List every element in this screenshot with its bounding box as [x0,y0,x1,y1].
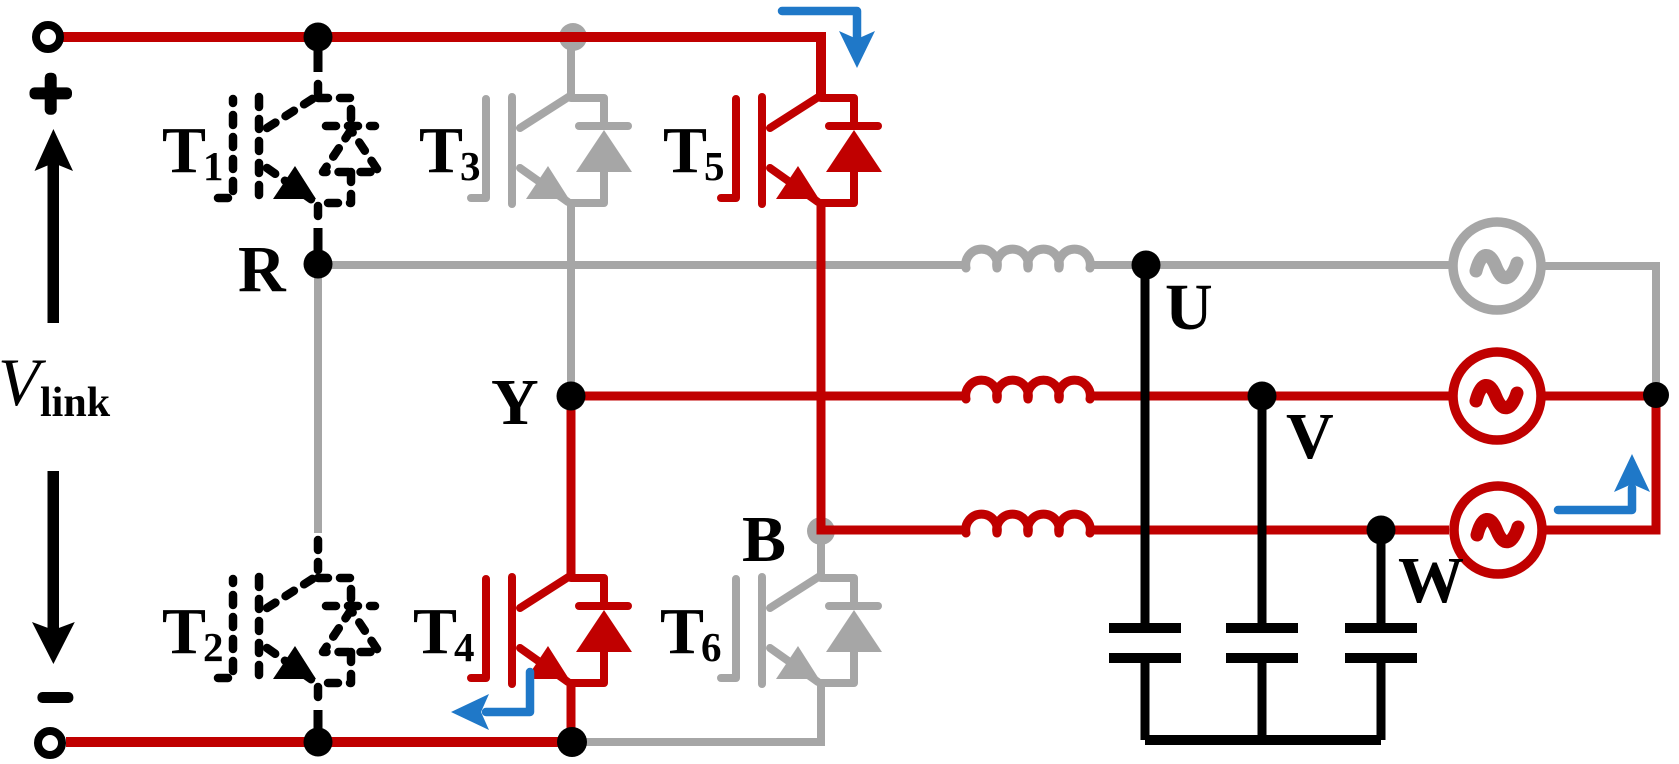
wire T5 emitter down and node B corner to phase line B (red) [821,200,966,530]
svg-text:T: T [419,114,463,187]
wire from source G1 to right corner down to junction [1545,266,1656,390]
plus sign [30,73,73,115]
transistor T4 (IGBT with antiparallel diode) [471,576,632,684]
svg-text:1: 1 [203,143,224,189]
node junction bottom rail / T2 [304,728,333,757]
node junction bottom rail / T4 [557,727,587,757]
wire T4 collector lead from node Y (red) [567,396,576,578]
AC source G2 (phase V) [1453,352,1541,440]
wire phase line Y from node Y (red) [571,392,966,401]
node junction top rail / leg T3 (gray dot) [559,23,587,51]
capacitor C3 plates [1345,623,1417,633]
wire T6 emitter lead down to bottom rail (gray) [571,681,821,742]
svg-text:2: 2 [203,624,224,670]
svg-text:5: 5 [704,143,725,189]
node W [1367,516,1396,545]
node junction right (neutral) [1643,382,1669,408]
wire leg1 from node R down to T2 (gray) [314,265,322,533]
wire DC+ top rail (red) [62,37,821,98]
capacitor C1 plates [1109,623,1181,633]
wire T1 emitter lead to node R (dashes + solid stub) [314,206,323,218]
svg-text:3: 3 [460,143,481,189]
svg-text:V: V [1286,400,1334,473]
svg-text:W: W [1398,544,1464,617]
svg-text:T: T [162,595,206,668]
arrow down (Vlink -) [32,471,75,664]
capacitor C2 bottom lead [1258,658,1267,740]
arrow up (Vlink +) [35,129,74,323]
node R [304,250,333,279]
wire source G2 to right junction (red) [1545,392,1656,401]
node Y [557,382,586,411]
wire T6 collector lead from node B (gray) [817,531,825,578]
wire T2 collector dashed lead [314,540,323,570]
capacitor C1 top lead from node U [1141,265,1150,623]
transistor T2 (IGBT with antiparallel diode) [218,576,379,684]
capacitor C3 top lead from node W [1377,530,1386,623]
wire T4 emitter lead to bottom rail (red) [567,681,576,742]
node U [1132,251,1161,280]
svg-text:Y: Y [491,366,539,439]
svg-text:T: T [660,595,704,668]
wire T2 emitter lead to bottom rail (dashes + solid stub) [314,687,323,699]
capacitor C2 top lead from node V [1258,396,1267,623]
svg-text:4: 4 [454,624,475,670]
capacitor C1 bottom lead [1141,658,1150,740]
svg-text:link: link [40,380,111,426]
capacitor C2 plates [1226,623,1298,633]
wire T1 collector lead (solid stub + dashes) [314,39,323,72]
blue current arrow into T5 [782,11,857,40]
AC source G1 (phase U) [1453,222,1541,310]
blue current arrow out of T4 [486,672,530,712]
svg-text:T: T [663,114,707,187]
wire source G3 right corner up to junction (red) [1545,395,1656,530]
minus sign [37,692,73,703]
svg-text:6: 6 [701,624,722,670]
wire capacitor common bus [1145,735,1381,745]
svg-text:R: R [238,233,287,306]
DC+ terminal (open circle) [36,25,60,49]
node V [1248,382,1277,411]
transistor T5 (IGBT with antiparallel diode) [721,96,882,204]
capacitor C3 bottom lead [1377,658,1386,740]
blue current arrow at source G3 [1558,488,1632,510]
inductor L3 (phase B filter) [966,514,1091,533]
inductor L2 (phase Y filter) [966,380,1091,399]
node node B (gray dot) [807,517,835,545]
transistor T3 (IGBT with antiparallel diode) [471,96,632,204]
svg-text:T: T [162,114,206,187]
node junction top rail / leg T1 [304,23,333,52]
wire DC- bottom rail (red) [66,737,573,747]
transistor T6 (IGBT with antiparallel diode) [721,576,882,684]
transistor T1 (IGBT with antiparallel diode) [218,96,379,204]
DC- terminal (open circle) [38,731,62,755]
wire T3 leg emitter down to node Y (gray) [567,200,575,396]
wire T3 leg collector (gray) [567,37,575,98]
inductor L1 (phase R filter) [966,249,1091,268]
wire phase line R (gray horizontal) [318,261,966,269]
svg-text:T: T [413,595,457,668]
svg-text:B: B [742,503,786,576]
svg-text:U: U [1165,271,1213,344]
AC source G3 (phase W) [1454,486,1542,574]
